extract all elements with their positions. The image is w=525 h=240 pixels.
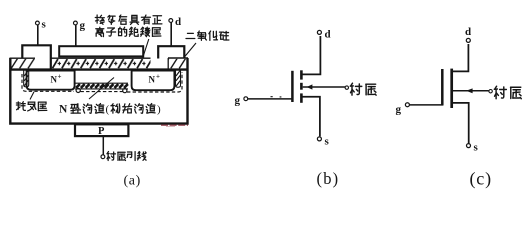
(b) gate bar [291,71,294,102]
(c) channel bar solid [450,69,453,108]
(c) source stub wire [452,103,469,144]
source electrode metal box [22,45,51,68]
svg-text:d: d [175,16,181,28]
label: silicon dioxide [186,33,195,38]
label: substrate lead [107,152,116,161]
P substrate body outline [10,58,187,124]
body top line / oxide band bottom [10,68,189,70]
(b) substrate wire with arrow [303,86,345,88]
(c) substrate wire with arrow [453,90,489,92]
svg-text:(b): (b) [317,169,340,188]
source metal block through oxide (diagonal hatch) [11,59,36,69]
MOSFET symbol (c): terminal g node circle [405,103,409,107]
oxide band top border [10,57,189,59]
gate electrode metal plate [59,46,143,56]
svg-text:N: N [149,75,156,85]
terminal g lead wire [75,25,77,46]
label: doped insulating layer with positive ions, line 2 [96,27,104,36]
svg-text:g: g [396,104,402,116]
svg-text:g: g [80,20,86,32]
source metal strip into N+ [24,70,29,87]
(c) gate lead wire [410,104,443,106]
(b) terminal s node circle [317,137,321,141]
(c) drain stub wire [452,44,469,71]
MOSFET symbol (b): terminal g node circle [244,97,248,101]
drain metal block through oxide (diagonal hatch) [169,59,188,69]
(c) substrate label [494,86,506,99]
(b) gate lead wire [248,98,292,100]
N-type initial channel strip [75,82,128,84]
substrate lead node circle [101,155,105,159]
N+ source region [27,71,75,90]
terminal d lead wire [170,23,172,47]
svg-text:P: P [98,126,105,137]
svg-text:+: + [58,73,62,81]
terminal g node circle [74,21,78,25]
drain electrode metal box [158,46,184,58]
svg-text:d: d [465,26,471,38]
(c) terminal d node circle [466,38,470,42]
svg-text:(: ( [106,104,110,116]
terminal s lead wire [37,25,39,45]
(c) terminal s node circle [467,144,471,148]
label: doped insulating layer with positive ions, line 1 [95,15,104,24]
P substrate contact box [75,124,128,136]
(b) substrate node circle [345,86,348,89]
leader line for depletion-layer label [30,92,34,100]
(c) substrate node circle [489,90,492,93]
svg-text:s: s [474,142,479,154]
terminal s node circle [36,21,40,25]
(b) channel segment source side [300,93,303,102]
svg-text:g: g [235,95,241,107]
(b) drain stub wire [301,36,320,74]
svg-text:+: + [156,73,160,81]
(b) terminal d node circle [317,30,321,34]
svg-text:s: s [42,19,47,31]
(b) channel segment substrate [300,83,303,90]
depletion hook right of channel [123,89,127,93]
(b) channel segment drain side [300,70,303,79]
label: depletion layer [16,102,25,111]
leader line for channel label [89,78,114,100]
leader line for doped-insulator label [143,39,149,59]
(b) source stub wire [301,97,320,137]
(b) specks on gate wire [271,96,282,98]
depletion hook left of channel [76,88,80,92]
leader line for SiO2 label [184,43,196,58]
scan artifact smudge [161,124,188,126]
depletion layer dashed boundary left N+ [22,74,74,91]
depletion boundary under channel [81,91,123,93]
svg-text:s: s [325,136,330,148]
drain metal strip into N+ [176,70,181,88]
depletion layer dashed boundary right N+ [127,72,182,92]
svg-text:d: d [325,29,331,41]
N+ drain region [132,71,175,91]
svg-text:N: N [59,104,68,116]
svg-text:N: N [51,75,58,85]
svg-text:): ) [157,104,161,116]
terminal d node circle [169,19,173,23]
(b) substrate label [350,83,361,95]
(c) gate bar [441,69,444,106]
substrate lead wire [102,136,104,155]
SiO2 insulator layer with positive ions (hatched +/) [51,59,151,69]
svg-text:(c): (c) [470,168,492,189]
svg-text:(a): (a) [124,173,141,188]
